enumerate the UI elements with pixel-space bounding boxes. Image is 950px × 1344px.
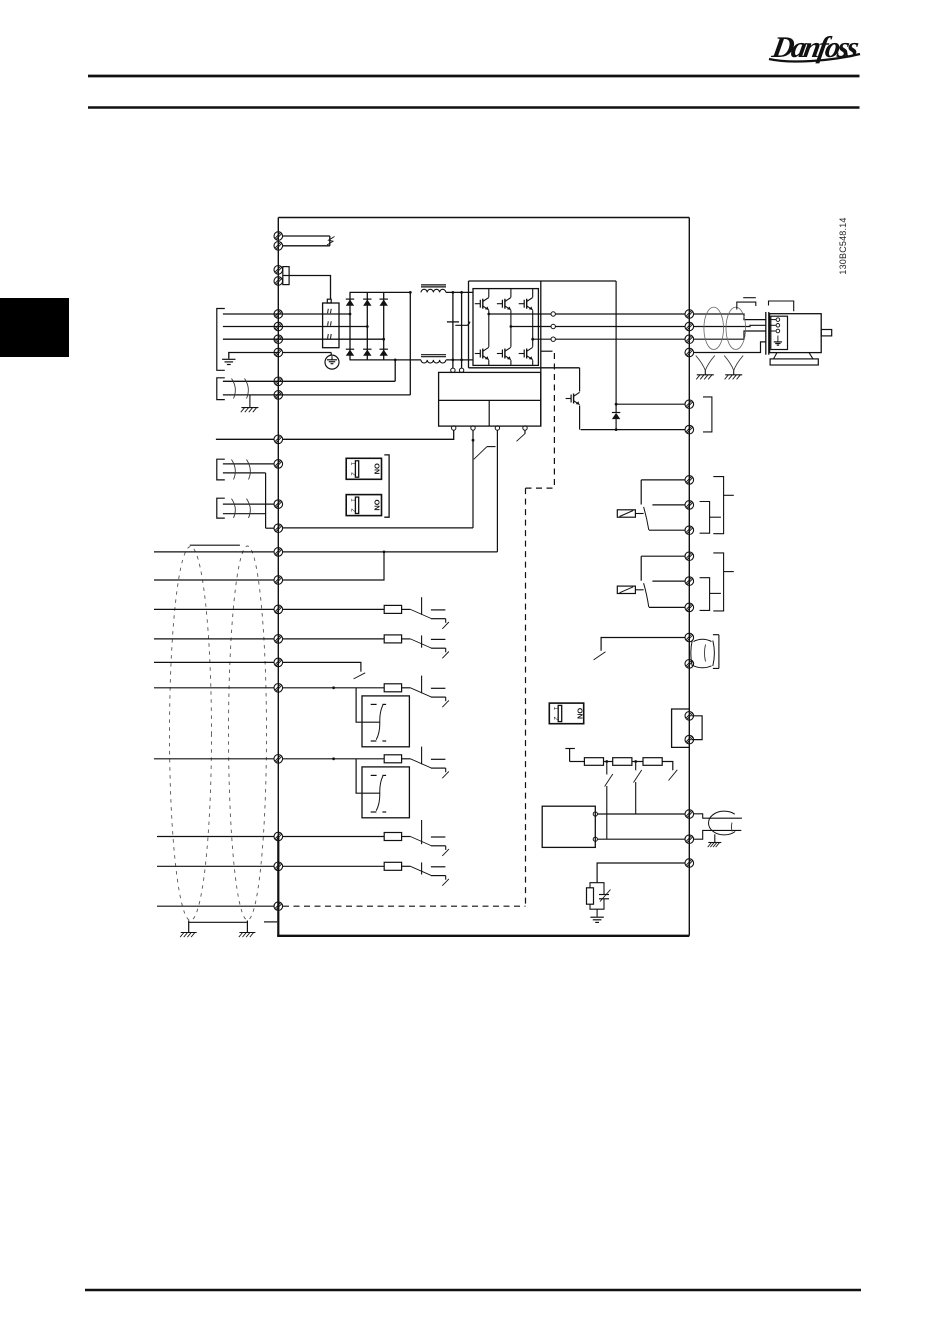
switch 19	[402, 635, 449, 658]
DIP S801 slider	[558, 705, 562, 721]
node output 1	[487, 313, 490, 316]
wire 81 R-	[616, 403, 685, 405]
svg-text:2: 2	[349, 472, 355, 476]
IGBT lower U4	[475, 347, 489, 359]
wire 88 to DC- rail	[394, 360, 396, 381]
wire SMPS pin3 down	[496, 430, 498, 552]
motor pin circle W	[776, 329, 780, 333]
node 27	[332, 686, 335, 689]
wire term to R1	[570, 761, 585, 763]
wire shields common	[265, 473, 267, 528]
SMPS bottom pin 3	[495, 426, 499, 430]
wire branch 13	[283, 552, 384, 580]
control cable wire y687.8	[154, 687, 274, 689]
relay 1 terminal 1	[685, 476, 694, 485]
RS-485 pin 68	[593, 812, 597, 816]
wire 24V to terminal r15	[283, 551, 498, 553]
resistor 32	[384, 833, 401, 841]
relay 2 wire C	[652, 580, 685, 582]
cable shield cap line	[190, 544, 240, 546]
node diode bottom	[615, 428, 618, 431]
RS-485 cable wire N	[694, 830, 742, 839]
switch 32	[402, 820, 449, 856]
terminal 89 +	[274, 391, 283, 400]
RS-485 box	[542, 806, 595, 847]
node branch 12/13	[383, 551, 386, 554]
control cable wire y866.3	[157, 865, 274, 867]
motor pin lead U	[769, 319, 776, 321]
terminal 13	[274, 576, 283, 585]
switch blade term B	[634, 770, 642, 783]
chassis ground shield B	[239, 933, 256, 938]
node output 2	[510, 325, 513, 328]
node diode top	[615, 403, 618, 406]
relay 1 wire NC	[649, 529, 685, 531]
pulse symbol 27	[371, 703, 377, 705]
terminal 91 L1	[274, 310, 283, 319]
relay 1 coil	[617, 510, 635, 517]
DIP switch S201 box	[346, 458, 381, 479]
relay 1 wire NO	[641, 480, 685, 505]
node 89/DC+	[409, 291, 412, 294]
resistor 29	[384, 755, 401, 763]
inverter leg 2	[510, 289, 512, 298]
RS-485 cable wire P	[694, 814, 742, 818]
IGBT upper U2	[497, 298, 511, 310]
terminal 33	[274, 862, 283, 871]
DC+ inductor core	[421, 284, 446, 286]
terminal 88 -	[274, 377, 283, 386]
relay 2 wire NC	[649, 606, 685, 608]
motor cable hood 1	[737, 302, 756, 309]
RC center down	[596, 909, 598, 916]
rectifier DC+ rail	[350, 291, 411, 293]
rectifier bottom diode D6	[380, 349, 388, 356]
node pin2	[472, 439, 475, 442]
SMPS box	[439, 372, 541, 426]
svg-text:2: 2	[349, 509, 355, 513]
motor wire W	[694, 331, 766, 339]
connector block terminals 270/281	[283, 267, 289, 285]
cable arcs pair1	[232, 460, 236, 480]
node 29	[332, 757, 335, 760]
terminal 32	[274, 832, 283, 841]
relay 2 terminal 1	[685, 552, 694, 561]
svg-text:1: 1	[552, 707, 558, 711]
relay 2 terminal 2	[685, 577, 694, 586]
relay 2 wire NO	[641, 556, 685, 581]
switch 29	[402, 747, 449, 779]
IGBT lower U6	[519, 347, 533, 359]
wire W to terminal	[555, 338, 685, 340]
SMPS bottom pin 2	[471, 426, 475, 430]
DC+ inductor winding	[421, 289, 446, 292]
terminal 27	[274, 684, 283, 693]
rectifier bottom diode D5	[363, 349, 371, 356]
node c2+	[460, 291, 463, 294]
motor drain hook 1	[696, 356, 715, 371]
SMPS bottom pin 1	[452, 426, 456, 430]
RFI capacitor marks row 2	[327, 321, 330, 325]
terminal 81	[685, 400, 694, 409]
chassis ground shield A	[180, 933, 197, 938]
relay 1 bracket outer	[713, 477, 723, 534]
wire 27	[283, 687, 385, 689]
terminal 20	[274, 658, 283, 667]
terminal 19	[274, 635, 283, 644]
header rule 1	[88, 75, 860, 78]
wire 82 R+	[581, 429, 685, 431]
Danfoss logo	[769, 30, 862, 64]
control cable wire y609.4	[154, 608, 274, 610]
dashed boundary v1	[553, 353, 555, 488]
jumper s801	[692, 716, 703, 740]
wire mains-disconnect cable upper	[283, 235, 330, 237]
svg-text:ON: ON	[372, 463, 381, 474]
rectifier top diode D3	[380, 299, 388, 306]
inverter leg 1	[488, 289, 490, 298]
node term B	[634, 760, 637, 763]
bracket analog pair 1	[217, 459, 225, 480]
wire clamp top	[601, 638, 685, 651]
wire PE right	[283, 352, 332, 354]
pulse input box 27	[362, 696, 409, 747]
wire 88	[223, 380, 395, 382]
cable arcs pair2	[232, 499, 236, 518]
motor cable shield ellipse 2	[726, 307, 746, 349]
DC- inductor winding	[421, 360, 446, 363]
relay 2 bracket outer	[713, 553, 723, 611]
dashed boundary stub	[541, 350, 553, 352]
terminal 37	[274, 902, 283, 911]
terminal L2-disc	[274, 242, 283, 251]
DC link capacitor plates	[447, 321, 459, 323]
motor body	[770, 314, 822, 353]
terminal 93 L3	[274, 335, 283, 344]
output circle W	[551, 337, 555, 341]
terminal clamp bottom	[685, 660, 694, 669]
relay 1 coil lead	[635, 513, 643, 515]
resistor RT2	[613, 758, 632, 766]
earth ground RC	[590, 917, 603, 922]
wire V out	[511, 326, 551, 328]
motor wire V	[694, 325, 766, 326]
terminal box S801	[672, 709, 690, 747]
branch wire 29	[356, 759, 380, 793]
wire U out	[489, 313, 551, 315]
resistor 18	[384, 605, 401, 613]
termination end cap	[565, 748, 574, 750]
svg-text:ON: ON	[575, 708, 584, 719]
node phase 1	[349, 313, 352, 316]
inverter outer box bottom	[469, 367, 580, 369]
brake diode lower wire	[615, 419, 617, 430]
relay 2 coil	[617, 586, 635, 593]
terminal 98 W	[685, 335, 694, 344]
dashed boundary h1	[526, 487, 555, 489]
svg-text:2: 2	[552, 717, 558, 721]
output circle V	[551, 324, 555, 328]
cable arcs load-share	[232, 379, 236, 399]
svg-text:ON: ON	[372, 500, 381, 511]
chassis ground load-share	[241, 408, 259, 413]
svg-text:Danfoss: Danfoss	[769, 30, 862, 64]
resistor RT3	[643, 758, 662, 766]
wire 18	[283, 608, 385, 610]
motor pin circle U	[776, 318, 780, 322]
DIP S201 slider	[355, 461, 358, 477]
bracket analog pair 2	[217, 498, 225, 518]
IGBT upper U3	[519, 298, 533, 310]
terminal 55	[274, 524, 283, 533]
brake IGBT Q7	[566, 392, 580, 404]
left margin black tab	[0, 298, 69, 357]
wire R1-R2	[604, 761, 613, 763]
pulse input box 29	[362, 767, 409, 818]
terminal 99 PE	[685, 348, 694, 357]
chassis ground RS-485	[708, 843, 722, 848]
relay 1 wire C	[652, 504, 685, 506]
node phase 2	[366, 325, 369, 328]
switch blade term A	[605, 774, 613, 787]
wire 53	[223, 463, 274, 465]
DIP S202 slider	[355, 497, 358, 513]
motor foot right	[809, 353, 813, 359]
RS-485 cable shield stub	[714, 834, 716, 842]
footer rule	[85, 1289, 861, 1291]
relay 1 bracket inner tick	[710, 516, 721, 518]
bracket load-share	[217, 378, 225, 400]
node c1+	[452, 291, 455, 294]
control cable wire y836.5	[157, 836, 274, 838]
bracket clamp	[713, 635, 719, 669]
brake IGBT emitter wire	[579, 406, 581, 430]
drive enclosure bottom edge (bold)	[277, 935, 689, 937]
wire 20	[283, 662, 361, 671]
terminal s801 a	[685, 712, 694, 721]
SMPS bottom pin 4	[523, 426, 527, 430]
relay 1 terminal 2	[685, 501, 694, 510]
resistor 19	[384, 635, 401, 643]
svg-text:1: 1	[349, 462, 355, 466]
switch blade term C	[669, 770, 678, 781]
RFI filter box	[323, 303, 339, 348]
wire 69	[597, 838, 685, 840]
DC- rail after choke	[446, 359, 473, 361]
switch blade pin2	[474, 447, 487, 460]
protective earth circle	[325, 355, 339, 369]
shield ellipse B	[229, 546, 267, 920]
relay 2 coil lead	[635, 589, 643, 591]
terminal 12	[274, 548, 283, 557]
inverter outer box left	[468, 281, 470, 368]
control cable wire y662.4	[154, 661, 274, 663]
wire W out	[533, 338, 551, 340]
rectifier leg 1	[349, 292, 351, 360]
control cable wire y758.8	[154, 758, 274, 760]
SMPS divider horizontal	[439, 399, 541, 401]
motor pin lead V	[769, 324, 776, 326]
rectifier leg 2	[366, 292, 368, 360]
terminal 18	[274, 605, 283, 614]
relay 1 bracket inner	[700, 502, 710, 534]
wire 68	[597, 813, 685, 815]
terminal 29	[274, 755, 283, 764]
motor wire PE	[694, 342, 766, 353]
IGBT lower U5	[497, 347, 511, 359]
shield stub load-share	[249, 395, 251, 408]
stub to earth circle	[330, 353, 332, 356]
wire 54 shield	[223, 513, 266, 515]
terminal 96 U	[685, 310, 694, 319]
shield ellipse A	[170, 547, 212, 921]
wire L2	[223, 326, 367, 328]
control cable wire y906.2	[157, 905, 274, 907]
drive enclosure left bus wire	[277, 218, 279, 837]
drive enclosure top edge	[278, 217, 689, 219]
terminal 54	[274, 500, 283, 509]
shield drain stub B	[246, 921, 248, 933]
relay 1 coil diagonal	[620, 511, 634, 517]
inverter outer box right / SMPS right	[540, 281, 542, 426]
shield drain wire	[189, 921, 248, 923]
SMPS top pin 2	[459, 368, 463, 372]
RC capacitor plates	[599, 894, 609, 896]
relay 1 bracket outer tick	[724, 494, 734, 496]
wire 37 dashed	[283, 905, 526, 907]
motor base	[770, 359, 818, 365]
switch 33	[402, 862, 449, 885]
bracket brake resistor	[703, 397, 712, 432]
relay 1 armature	[644, 507, 649, 530]
bracket 3-phase input	[217, 309, 225, 371]
wire 54	[223, 503, 274, 505]
relay 1 terminal 3	[685, 526, 694, 535]
wire r11 left stub	[216, 438, 274, 440]
cable break mark	[327, 237, 335, 246]
relay 2 bracket outer tick	[724, 571, 734, 573]
resistor 33	[384, 862, 401, 870]
output circle U	[551, 312, 555, 316]
wire R2-R3	[632, 761, 643, 763]
RC varistor diagonal	[600, 890, 611, 902]
svg-text:130BC548.14: 130BC548.14	[838, 217, 848, 274]
resistor RT1	[584, 758, 603, 766]
terminal 92 L2	[274, 322, 283, 331]
switch 27	[402, 676, 449, 708]
terminal 53	[274, 460, 283, 469]
wire 33	[283, 865, 385, 867]
RC right branch	[597, 883, 604, 895]
rectifier leg 3	[383, 292, 385, 360]
control cable wire y551.9	[154, 551, 274, 553]
RS-485 pin 69	[593, 837, 597, 841]
relay 2 bracket inner tick	[710, 592, 721, 594]
wire mains-disconnect cable lower	[283, 245, 330, 247]
wire 89	[223, 394, 410, 396]
wire V to terminal	[555, 326, 685, 328]
motor pin lead W	[769, 330, 776, 332]
wire L3	[223, 338, 384, 340]
wire after R3	[662, 762, 673, 771]
rectifier DC- rail	[350, 359, 422, 361]
terminal 82	[685, 425, 694, 434]
drop wire term A	[606, 762, 608, 775]
wire 53 shield	[223, 472, 266, 474]
terminal clamp top	[685, 633, 694, 642]
cable clamp icon	[691, 639, 715, 668]
RFI filter nub	[327, 299, 331, 303]
switch blade clamp	[594, 652, 606, 660]
node phase 3	[382, 338, 385, 341]
node output 3	[531, 338, 534, 341]
switch blade 20	[354, 673, 366, 679]
control cable wire y580.0	[154, 579, 274, 581]
drive enclosure left bus wire lower (bold PE)	[277, 837, 279, 937]
relay 2 armature	[644, 583, 649, 607]
motor shaft	[821, 330, 832, 336]
terminal r11	[274, 435, 283, 444]
wire SMPS pin1 to terminal r11	[283, 430, 454, 439]
pulse symbol 29	[371, 774, 377, 776]
RS-485 cable loop	[709, 811, 736, 835]
wire 24V common to terminal r14	[283, 527, 473, 529]
SMPS top pin 1	[451, 368, 455, 372]
wire L1	[223, 313, 350, 315]
wire to terminal 55	[266, 527, 274, 529]
motor cable hood 1b	[743, 297, 756, 299]
control cable wire y638.9	[154, 638, 274, 640]
terminal s801 b	[685, 735, 694, 744]
RC network left branch	[590, 883, 597, 888]
DC- inductor core	[421, 354, 446, 356]
wire 89 to DC+ rail	[409, 292, 411, 395]
wire 61	[597, 863, 685, 883]
rectifier bottom diode D4	[346, 349, 354, 356]
DC bus cap rail 2	[461, 292, 463, 368]
motor earth pin	[777, 336, 779, 342]
SMPS pin4 stub	[524, 430, 526, 433]
wire 29	[283, 758, 385, 760]
wire SMPS pin2 down	[472, 430, 474, 528]
motor pin circle V	[776, 324, 780, 328]
DIP switch S801 box	[549, 703, 583, 724]
inverter outer box top / brake feed	[469, 280, 617, 282]
DC bus cap rail 1	[452, 292, 454, 368]
brake IGBT collector wire	[579, 368, 581, 392]
rectifier top diode D1	[346, 299, 354, 306]
node c1-	[452, 359, 455, 362]
brake diode drop wire	[615, 281, 617, 413]
switch 18	[402, 597, 449, 629]
dashed boundary v2	[525, 488, 527, 905]
resistor 27	[384, 684, 401, 692]
relay 2 bracket inner	[700, 578, 710, 611]
motor cable hood 2	[769, 301, 794, 311]
terminal 95 PE	[274, 348, 283, 357]
chassis ground motor 2	[725, 375, 743, 380]
wire 19	[283, 638, 385, 640]
motor wire U	[694, 314, 766, 320]
inverter inner box	[473, 289, 538, 366]
RC resistor	[587, 888, 594, 904]
cable end	[329, 236, 331, 246]
shield drain stub A	[188, 921, 190, 933]
RFI capacitor marks row 3	[327, 334, 330, 338]
switch blade pin4	[517, 433, 526, 441]
node term A	[605, 760, 608, 763]
terminal 69	[685, 835, 694, 844]
